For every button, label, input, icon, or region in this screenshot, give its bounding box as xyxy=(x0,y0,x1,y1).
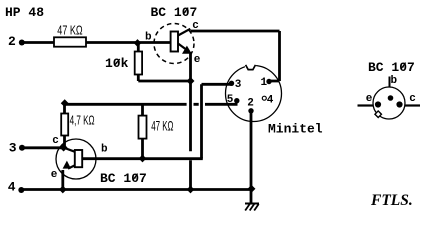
DIN connector circle (Minitel) xyxy=(226,66,282,122)
resistor 47K xyxy=(139,116,147,139)
svg-text:Minitel: Minitel xyxy=(268,122,323,137)
wire emitter Q1 down (broken at base-wire crossing) xyxy=(189,52,192,190)
notch V xyxy=(246,65,256,70)
pinout lead b xyxy=(389,77,391,88)
wire base node down to 10k xyxy=(137,43,140,52)
ground symbol xyxy=(245,203,259,205)
wire terminal2 to resistor R1 xyxy=(22,41,55,44)
wire 47K bottom to base wire xyxy=(141,139,144,159)
transistor Q1 dashed circle xyxy=(154,24,194,64)
svg-text:BC 107: BC 107 xyxy=(151,5,198,20)
transistor Q2 collector diagonal xyxy=(64,148,75,152)
junction 47K/base wire xyxy=(139,155,147,163)
transistor Q1 base bar xyxy=(171,32,178,52)
svg-text:b: b xyxy=(391,75,398,87)
svg-text:47 KΩ: 47 KΩ xyxy=(151,118,173,134)
wire emitter Q2 down to rail xyxy=(61,170,64,190)
node 4.7K top (diamond) xyxy=(61,99,69,107)
svg-text:5: 5 xyxy=(227,94,234,106)
junction emitter Q1 / rail xyxy=(187,186,195,194)
wire pin2 down to ground xyxy=(250,113,253,204)
DIN pin 5 dot xyxy=(234,98,239,103)
svg-text:e: e xyxy=(366,93,373,105)
svg-text:4,7 KΩ: 4,7 KΩ xyxy=(70,113,95,128)
junction emitter Q2 / rail xyxy=(59,186,67,194)
resistor 10k xyxy=(135,52,142,75)
svg-text:b: b xyxy=(101,144,108,156)
wire 10k bottom to emitter line xyxy=(138,75,190,82)
node collector Q2 (diamond) xyxy=(60,144,68,152)
svg-text:c: c xyxy=(52,135,59,147)
pinout dot e xyxy=(375,101,381,107)
pinout dot c xyxy=(396,101,402,107)
svg-text:HP 48: HP 48 xyxy=(5,5,44,20)
svg-text:4: 4 xyxy=(267,95,274,107)
ground rail (terminal 4 to ground) xyxy=(21,188,251,191)
svg-text:2: 2 xyxy=(8,34,16,49)
svg-text:BC 107: BC 107 xyxy=(100,171,147,186)
svg-text:2: 2 xyxy=(247,98,254,110)
DIN pin 3 dot xyxy=(229,81,234,86)
DIN pin 2 dot xyxy=(248,108,253,113)
DIN pin 4 open circle xyxy=(262,96,266,100)
pinout lead e xyxy=(358,104,374,106)
base wire Q2 to pin3 branch xyxy=(82,157,203,160)
transistor Q1 collector diagonal xyxy=(178,29,190,36)
svg-text:e: e xyxy=(194,54,201,66)
junction pin2 wire / rail xyxy=(248,185,256,193)
svg-text:FTLS.: FTLS. xyxy=(370,192,413,209)
svg-text:BC 107: BC 107 xyxy=(368,60,415,75)
wire terminal3 to collector node xyxy=(22,146,63,149)
pinout lead c xyxy=(405,104,421,106)
node base Q1 (junction dot) xyxy=(134,39,142,47)
wire pin3 branch vertical + horizontal to pin 3 xyxy=(202,84,232,158)
svg-text:b: b xyxy=(145,32,152,44)
svg-text:3: 3 xyxy=(235,79,242,91)
DIN pin 1 dot xyxy=(266,79,271,84)
svg-text:c: c xyxy=(409,93,416,105)
slash of zero in BC 107 top xyxy=(183,8,188,15)
transistor Q2 base bar xyxy=(75,150,82,167)
pinout dot b xyxy=(388,95,394,101)
resistor R1 47K xyxy=(54,37,86,46)
notch cutout xyxy=(245,63,256,68)
slash of zero in BC 107 bottom xyxy=(133,174,138,181)
wire collector Q1 to DIN pin1: up-right path xyxy=(190,31,279,81)
svg-text:4: 4 xyxy=(8,180,16,195)
svg-text:47 KΩ: 47 KΩ xyxy=(57,23,82,38)
svg-text:3: 3 xyxy=(9,140,17,155)
transistor Q2 circle xyxy=(56,139,96,179)
wire R1 to base node xyxy=(86,41,171,44)
wire 4.7K bottom to collector node xyxy=(63,136,66,148)
slash of zero in 10k xyxy=(115,59,120,65)
transistor Q2 emitter diagonal with arrow xyxy=(68,165,75,168)
transistor Q1 emitter diagonal with arrow xyxy=(178,44,186,50)
svg-text:e: e xyxy=(51,169,58,181)
rail to pin5 (broken at crossings) xyxy=(65,103,238,106)
slash of zero in BC 107 right xyxy=(401,63,406,70)
junction 10k/emitter xyxy=(187,77,195,85)
wire rail down to 4.7K xyxy=(63,103,66,114)
svg-text:1: 1 xyxy=(261,77,268,89)
wire rail down to 47K top xyxy=(141,104,144,116)
pinout tab xyxy=(375,111,382,118)
pinout circle xyxy=(373,87,405,119)
resistor 4.7K xyxy=(61,114,68,136)
